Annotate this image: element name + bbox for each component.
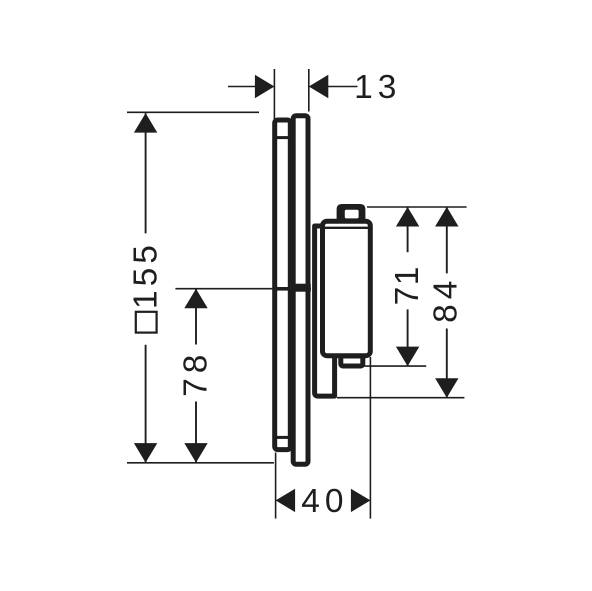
dim 13: right tail [327,86,358,88]
dim 155: dimension line upper segment [145,113,147,233]
svg-text:40: 40 [301,483,348,520]
dim 71: dimension line lower segment [407,309,409,366]
dim 13: extension line left [273,69,275,126]
dim 78: dimension line lower segment [195,402,197,463]
dim 155: bottom extension line [127,462,274,464]
label square-155 [128,241,165,333]
center crossbar mark on plate [291,284,311,292]
knob inner top line [325,227,368,229]
dim 155: arrow up [134,113,157,133]
dim 84: dimension line upper segment [446,207,448,273]
dim 78: top extension line [175,288,311,290]
dim 78: arrow down [184,443,207,463]
top select button window [345,210,359,219]
top select button [337,204,366,222]
svg-text:155: 155 [128,241,165,309]
dim 40: left extension line [275,453,277,519]
dim 71/84: shared top extension line [367,206,467,208]
dim 13: extension line right [308,69,310,112]
svg-text:84: 84 [427,276,464,323]
dim 71: arrow up [396,207,419,227]
escutcheon plate (front plate, side view) [293,116,308,465]
dim 71: dimension line upper segment [407,207,409,252]
svg-text:78: 78 [178,350,215,397]
svg-text:13: 13 [354,69,401,106]
dim 84: arrow down [435,378,458,398]
bottom tab [341,356,363,366]
dim 71: bottom extension line [362,365,426,367]
dim 84: bottom extension line [337,397,464,399]
dim 155: dimension line lower segment [145,345,147,463]
dim 78: arrow up [184,289,207,309]
dim 84: arrow up [435,207,458,227]
dim 84: dimension line lower segment [446,329,448,398]
rosette bottom inner line [275,436,291,439]
dim 71: arrow down [396,347,419,367]
dim 13: arrow pointing left [309,75,329,98]
dim 155: top extension line [127,111,259,113]
dim 78: dimension line upper segment [195,289,197,345]
handle knob body [323,221,371,356]
dim 40: right extension line [369,357,371,519]
svg-text:71: 71 [389,265,426,305]
rosette top inner line [275,136,291,139]
rosette center joint line [277,287,291,291]
dim 40: arrow left [276,489,296,512]
dim 40: arrow right [351,489,371,512]
dim 13: left tail [228,86,256,88]
valve body sleeve (behind handle) [315,226,335,396]
dim 13: arrow pointing right [255,75,275,98]
dim 155: arrow down [134,443,157,463]
rosette (back seal plate, side view) [275,120,291,450]
